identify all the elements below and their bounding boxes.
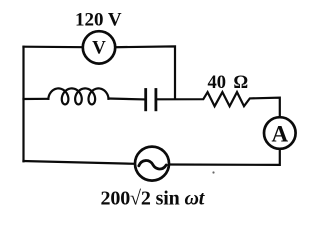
svg-text:120 V: 120 V bbox=[75, 10, 122, 31]
svg-text:A: A bbox=[271, 121, 288, 146]
svg-text:200√2 sin ωt: 200√2 sin ωt bbox=[101, 188, 206, 210]
svg-text:40 Ω: 40 Ω bbox=[208, 73, 249, 93]
svg-text:V: V bbox=[92, 38, 106, 59]
